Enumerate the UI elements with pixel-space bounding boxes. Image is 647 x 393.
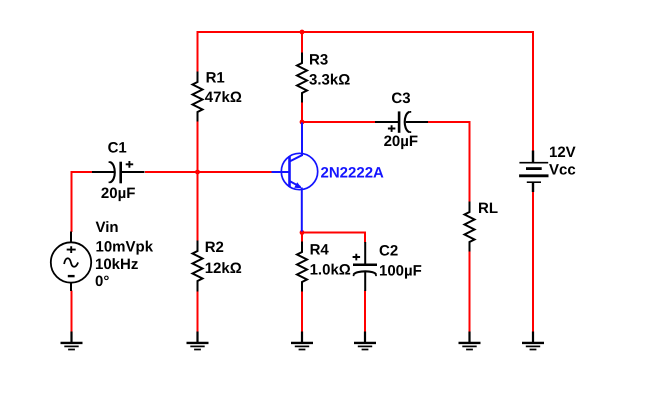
wire emitter node to R4 (301, 231, 303, 243)
svg-text:C1: C1 (108, 140, 127, 157)
resistor RL (465, 202, 475, 252)
svg-text:Vcc: Vcc (549, 161, 576, 178)
wire R2 bottom to ground (197, 291, 199, 333)
wire battery bottom to ground (532, 192, 534, 333)
node top bus junction (300, 30, 305, 35)
svg-text:47kΩ: 47kΩ (205, 89, 242, 106)
svg-text:2N2222A: 2N2222A (321, 165, 385, 182)
svg-text:12kΩ: 12kΩ (205, 260, 242, 277)
svg-text:R3: R3 (309, 51, 328, 68)
wire right bus down to battery (532, 31, 534, 152)
svg-text:1.0kΩ: 1.0kΩ (310, 261, 351, 278)
wire emitter node to C2 (302, 233, 365, 243)
wire base horizontal (145, 171, 272, 173)
wire R4 bottom to ground (301, 291, 303, 333)
wire collector node to C3 (302, 121, 375, 123)
wire base node to R2 (197, 172, 199, 242)
capacitor C3 (375, 111, 428, 132)
ground (battery) (522, 332, 544, 350)
svg-text:20µF: 20µF (101, 185, 135, 202)
wire Vin bottom to ground (71, 291, 73, 333)
transistor Q1 2N2222A (272, 123, 318, 232)
wire R3 bottom to collector node (301, 102, 303, 123)
wire C1 left to corner (72, 172, 93, 232)
svg-text:10kHz: 10kHz (95, 256, 138, 273)
ground (Vin) (61, 332, 83, 350)
svg-text:C2: C2 (379, 243, 398, 260)
resistor R1 (193, 72, 203, 122)
svg-text:R4: R4 (310, 242, 330, 259)
wire RL bottom to ground (469, 251, 471, 332)
wire top bus to R3 (301, 31, 303, 54)
node base junction (195, 170, 200, 175)
wire top bus Vcc (198, 31, 534, 33)
ground (RL) (459, 332, 481, 350)
capacitor C2 (353, 242, 377, 291)
svg-text:12V: 12V (549, 144, 576, 161)
svg-text:3.3kΩ: 3.3kΩ (309, 72, 350, 89)
wire C3 right to RL (428, 122, 470, 203)
svg-text:R2: R2 (205, 239, 224, 256)
svg-text:100µF: 100µF (379, 262, 422, 279)
node emitter junction (300, 230, 305, 235)
svg-text:C3: C3 (391, 90, 410, 107)
svg-text:RL: RL (478, 200, 498, 217)
resistor R4 (297, 242, 307, 292)
svg-text:10mVpk: 10mVpk (96, 239, 154, 256)
svg-text:0°: 0° (95, 273, 109, 290)
wire R1 bottom to base node (197, 121, 199, 173)
ground (R4) (291, 332, 313, 350)
ground (R2) (187, 332, 209, 350)
wire left bus down to R1 (197, 31, 199, 73)
ground (C2) (354, 332, 376, 350)
battery V1 12V Vcc (519, 151, 548, 193)
svg-text:20µF: 20µF (384, 133, 419, 150)
resistor R3 (297, 53, 307, 103)
svg-text:Vin: Vin (96, 219, 119, 236)
wire C2 bottom to ground (364, 291, 366, 333)
node collector junction (300, 120, 305, 125)
svg-text:R1: R1 (206, 69, 225, 86)
AC source Vin (51, 232, 91, 292)
resistor R2 (193, 241, 203, 292)
capacitor C1 (92, 161, 145, 183)
